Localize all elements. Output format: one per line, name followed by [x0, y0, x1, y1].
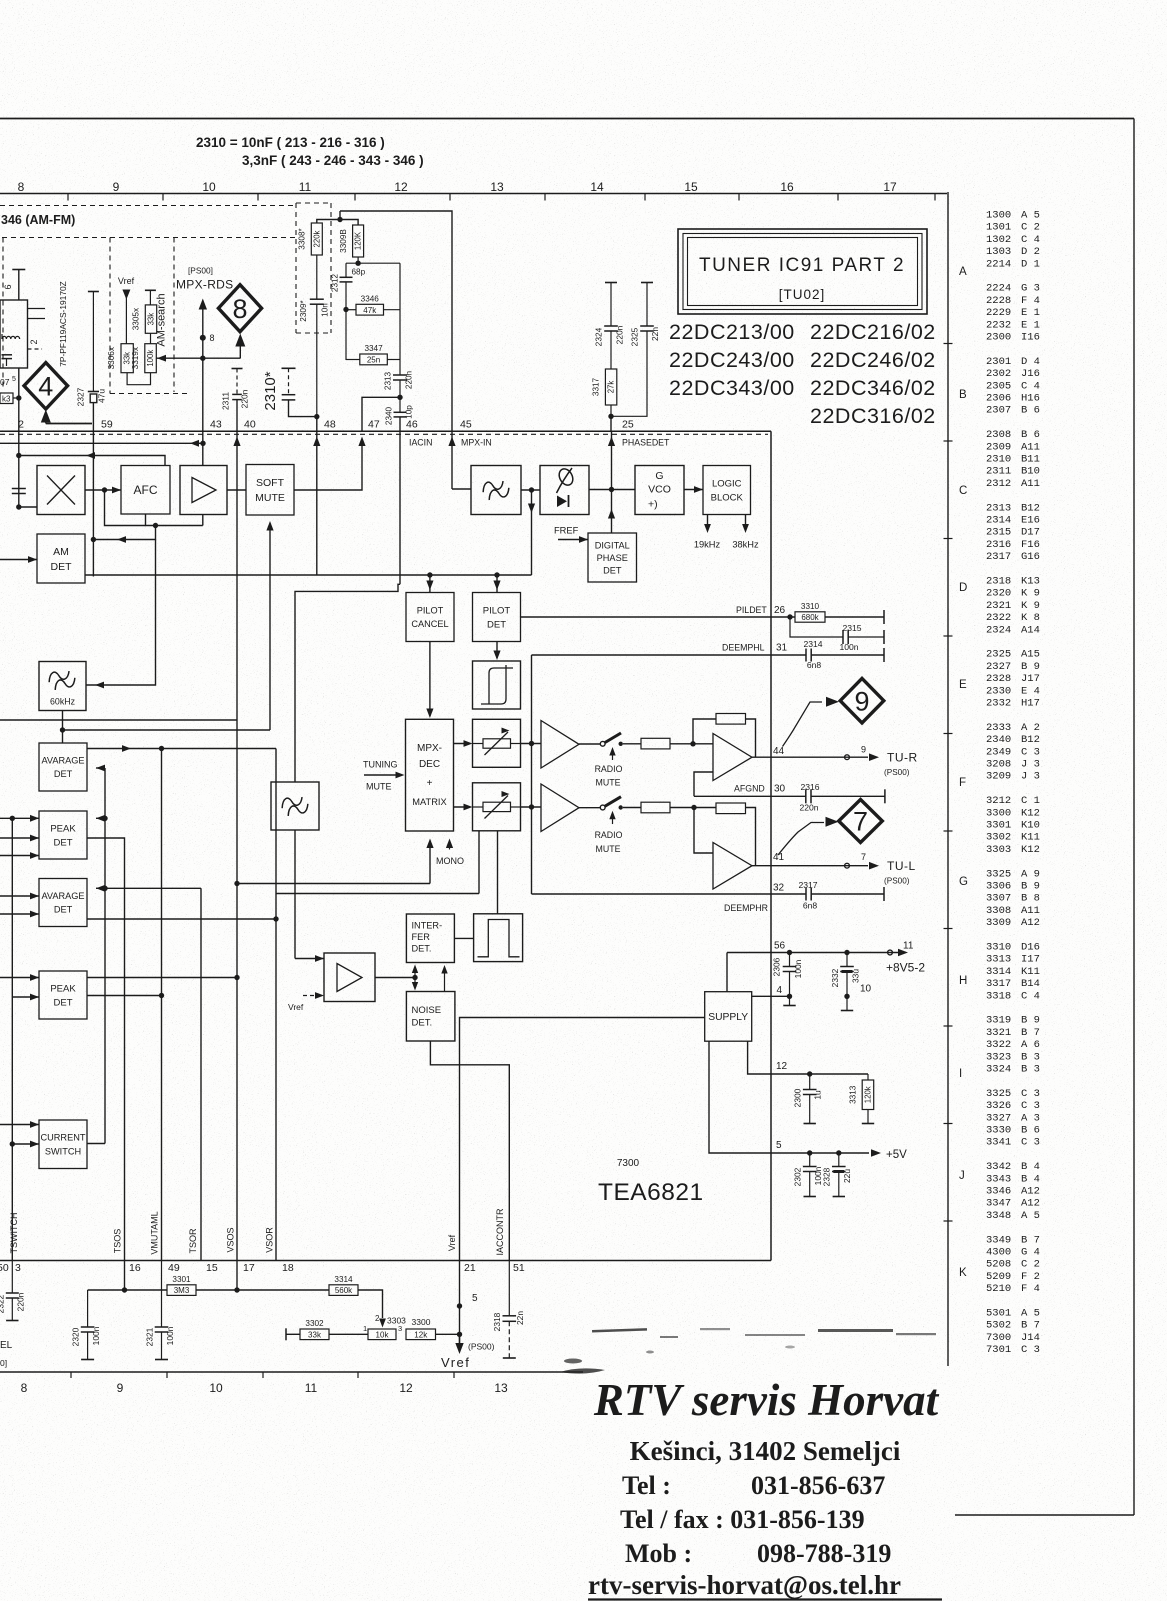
wire interference amp output: [375, 977, 415, 979]
wire AVARAGE2 to TSOR: [105, 887, 201, 889]
terminal bar above 3305x: [145, 289, 156, 291]
radio mute switch 1: [579, 743, 600, 745]
VSOR rail: [275, 749, 277, 1262]
MONO arrow: [446, 839, 453, 849]
wire junction down to pin59 node: [93, 526, 155, 540]
transformer right stubs: [28, 308, 46, 310]
wire PEAK2 output to VSOS rail: [87, 977, 237, 979]
channel amplifier 1 triangle: [541, 721, 579, 769]
wire CURRENT SWITCH output up rail: [87, 1143, 105, 1145]
page bottom-right border: [944, 1514, 1134, 1516]
wire PEAK2 lower output to VMUTAML: [87, 995, 162, 997]
arrow into PILOT CANCEL: [429, 575, 431, 593]
resistor 3306x 33k: [121, 344, 133, 373]
wire PEAK1 output to TSOS: [87, 838, 125, 1261]
hysteresis block: [473, 661, 521, 709]
resistor after switch 1: [641, 738, 670, 749]
capacitor 2317 6n8: [805, 888, 807, 901]
wire 3309B top to node: [340, 220, 358, 226]
wire attenuator2 to channel amp2: [521, 806, 542, 808]
TU-L output pin 41: [752, 865, 868, 867]
variable attenuator block 2: [473, 783, 521, 831]
capacitor 2316 220n: [805, 789, 807, 803]
op-amp2 feedback resistor: [716, 803, 746, 814]
wire node to pin 47 column: [362, 397, 400, 431]
wire MPX dec mono line: [237, 883, 430, 885]
wire PEAK1 right input from rail: [96, 817, 105, 819]
wire transformer to lower junctions: [18, 368, 20, 456]
wire PEAK1 left inputs: [0, 817, 39, 819]
pin 25 wire: [611, 431, 613, 490]
output op-amp 2 triangle: [713, 843, 752, 890]
capacitor 2310* (starred): [282, 367, 296, 369]
resistor 3347 25n: [360, 354, 388, 365]
Vref rail below IC edge: [459, 1261, 461, 1345]
index column tick marks: [944, 343, 953, 345]
pulse shaper block: [474, 914, 523, 962]
resistor 3313 120k: [867, 1074, 869, 1080]
wire AFC bottom jog: [146, 515, 203, 526]
page top border: [0, 118, 1134, 120]
arrow PILOT DET to hysteresis: [496, 642, 498, 659]
diamond connector 8: [218, 285, 261, 332]
capacitor inside transformer box: [2, 354, 13, 356]
TSOS VSOS rails to 3301 line: [124, 1261, 126, 1290]
wire U-link below 3306x and 3319x: [127, 373, 150, 385]
wire amplifier to SOFT MUTE: [227, 489, 246, 491]
diamond connector 9: [840, 678, 884, 723]
PILDET line pin 26: [521, 616, 796, 618]
wire attenuator1 to channel amp1: [521, 743, 542, 745]
pin 5 line +5V: [709, 1041, 869, 1153]
resistor 3302 33k: [285, 1328, 287, 1340]
wire feedback into node43: [0, 442, 203, 444]
left dashed box around IF transformer: [2, 238, 4, 391]
capacitor 2306 100n: [789, 953, 791, 967]
dashed box around 3308 and 2309: [296, 202, 331, 204]
arrow down from Vref: [122, 290, 130, 300]
wire pin 48 column: [316, 431, 318, 575]
junction k3 to vertical: [16, 395, 21, 400]
AVARAGE DET block 2: [39, 879, 87, 927]
wire AM DET input: [0, 559, 37, 561]
link to diamond 7: [778, 823, 824, 856]
wire MPX-IN feed top run: [340, 211, 452, 489]
top ruler line: [0, 193, 947, 195]
AFC block: [121, 466, 170, 515]
resistor 3303 10k: [368, 1329, 396, 1340]
capacitor 2300 1u: [809, 1074, 811, 1090]
mixer block: [37, 466, 85, 515]
top ruler half ticks: [67, 194, 69, 201]
capacitor on pin2 rail: [12, 488, 26, 490]
output op-amp 1 triangle: [713, 734, 752, 781]
wire pin 2 rail: [18, 456, 20, 508]
arrow into diamond 8: [235, 334, 245, 347]
arrow into diamond 4: [41, 410, 51, 423]
channel amplifier 2 triangle: [541, 784, 579, 832]
diamond connector 4: [24, 363, 68, 409]
title block frame: [678, 229, 927, 314]
DEEMPHL line pin 31: [532, 654, 807, 656]
resistor 3346 47k: [356, 304, 384, 315]
scan noise texture: [0, 0, 1, 1]
IC 7300 boundary top edge: [0, 430, 771, 432]
wire node to DIGITAL PHASE DET: [611, 490, 613, 534]
capacitor 2302 100n: [809, 1153, 811, 1167]
node 8 ring on MPX-RDS wire: [200, 335, 206, 341]
wire attenuator2 to pulse shaper: [497, 831, 499, 914]
capacitor 2321 100n: [161, 1261, 163, 1327]
arrow up MPX-RDS output: [199, 299, 207, 310]
capacitor 2311 220n: [232, 368, 243, 370]
junction column deemphl to deemphr: [531, 655, 533, 894]
wire node up to MPX-IN feed line: [339, 211, 341, 220]
resistor after switch 2: [641, 802, 670, 813]
resistor 3319x 100k: [145, 344, 157, 373]
capacitor 2324 220n: [605, 282, 617, 284]
wire down to 60kHz filter: [86, 540, 156, 686]
resistor 3310 680k: [795, 612, 825, 622]
wire diamond 4 to pin 59 column: [46, 423, 92, 425]
LOGIC BLOCK block: [703, 466, 751, 515]
resistor 3309B 120K: [353, 225, 364, 257]
DIGITAL PHASE DET block: [588, 533, 637, 582]
capacitor 2322 220n: [11, 1261, 13, 1293]
AFGND line pin 30: [694, 795, 806, 797]
capacitor 2328 22u: [838, 1153, 840, 1167]
TSWITCH rail: [11, 818, 13, 1261]
capacitor 2332 33u: [846, 953, 848, 967]
wire AVARAGE2 right input from rail: [96, 887, 105, 889]
pin 2 stub of transformer: [28, 348, 43, 350]
wire mixer to AFC: [85, 489, 121, 491]
capacitor 2320 100n: [87, 1290, 89, 1327]
MPX-DEC output arrows: [454, 743, 471, 745]
stamp white background: [583, 1366, 955, 1601]
capacitor 2318 22n: [508, 1261, 510, 1316]
wire long rail into pin40: [0, 719, 237, 721]
PEAK DET block 2: [39, 971, 87, 1019]
G VCO block: [635, 466, 684, 515]
wire AM DET output line: [85, 574, 532, 576]
capacitor 2309* 10n: [316, 255, 318, 299]
IF amplifier block: [180, 466, 227, 515]
wire AVARAGE1 right input: [96, 767, 105, 769]
schematic bottom border: [0, 1371, 948, 1373]
resistor 3308* 220k: [311, 223, 322, 255]
AM-FM module dashed boundary: [0, 205, 296, 207]
capacitor 2312 68p: [345, 263, 347, 277]
interference amplifier block: [324, 953, 375, 1002]
wire AVARAGE2 inputs: [0, 895, 39, 897]
INTER-FER DET block: [406, 914, 454, 963]
wire right column x400: [399, 263, 401, 375]
resistor 3305x 33k: [145, 305, 156, 333]
wire VCO to LOGIC BLOCK: [684, 489, 703, 491]
op-amp1 feedback resistor: [693, 719, 716, 744]
wire NOISE DET to SUPPLY and Vref rail: [460, 1018, 705, 1262]
pilot cancel filter block: [271, 782, 319, 830]
wire PEAK2 inputs: [0, 977, 39, 979]
wire CURRENT SWITCH inputs: [0, 1124, 39, 1126]
pin 56 supply line: [726, 953, 728, 992]
arrows between INTERFER and NOISE: [414, 967, 416, 988]
link to diamond 9: [783, 702, 823, 747]
resistor 3300 12k: [406, 1329, 436, 1340]
wire pin 43 through amplifier: [202, 423, 204, 466]
TU-R output pin 44: [752, 756, 868, 758]
NOISE DET block: [406, 992, 455, 1042]
wire AVARAGE1 output line: [87, 748, 276, 750]
wire AVARAGE2 output to VSOR: [87, 918, 276, 920]
rail x105 current switch to averagedet: [104, 768, 106, 1144]
wire AM-search node to MPX-RDS column: [157, 357, 241, 359]
wire pin 40 VSOS rail: [236, 431, 238, 1261]
arrow into PILOT DET: [496, 575, 498, 593]
bottom ruler half ticks: [70, 1372, 72, 1378]
IF transformer 5301 box: [0, 300, 28, 368]
pin 4 line: [752, 995, 790, 997]
VSOS rail junction: [234, 881, 239, 886]
capacitor 2313 220n: [393, 374, 407, 376]
PILOT CANCEL to MPX-DEC arrow: [429, 642, 431, 717]
PEAK DET block 1: [39, 811, 87, 859]
pin 12 line: [748, 1041, 868, 1074]
variable attenuator block 1: [473, 719, 521, 767]
resistor 3301 3M3 line: [88, 1289, 167, 1291]
capacitor 2327 47u: [88, 291, 99, 293]
wire attenuator2 lower line: [276, 893, 479, 895]
page right border: [1133, 119, 1135, 1516]
VMUTAML rail: [161, 749, 163, 1262]
PILOT CANCEL block: [406, 593, 454, 642]
IC 7300 boundary bottom edge: [0, 1260, 771, 1262]
MPX-DEC MATRIX block: [406, 719, 454, 831]
wire pin46 jog to pilot cancel filter: [295, 584, 400, 782]
LOGIC BLOCK outputs 19kHz 38kHz: [707, 515, 709, 531]
wire 3308 top to node: [317, 220, 340, 224]
wire mixer branch down: [105, 490, 146, 526]
pin 6 stub of transformer: [12, 269, 25, 271]
capacitor 2315 100n: [790, 617, 843, 637]
CURRENT SWITCH block: [39, 1120, 87, 1169]
capacitor 2325 22n: [641, 282, 653, 284]
AVARAGE DET block 1: [39, 743, 87, 791]
wire 3305x to 3319x: [150, 333, 152, 343]
wire NOISE DET to IACCONTR: [430, 1041, 509, 1261]
AM DET block: [37, 534, 85, 583]
wire 60kHz to AVARAGE DET 1: [62, 711, 64, 744]
SOFT MUTE block: [246, 465, 294, 516]
MPX input filter block: [471, 466, 521, 515]
wire INTERFER to pulse shaper: [454, 937, 473, 939]
wire SOFT MUTE to pin 47: [294, 440, 362, 490]
module dashed boundary below IC top edge: [0, 433, 768, 435]
diamond connector 7: [839, 800, 883, 843]
phase shifter block: [540, 466, 589, 515]
wire soft mute bottom feed: [269, 525, 271, 730]
MPX-RDS dashed box left edge: [173, 238, 175, 393]
wire junction down to pilot line: [531, 490, 533, 575]
index column separator line: [947, 192, 949, 1372]
wire filter to phase shifter: [521, 489, 540, 491]
DEEMPHR line pin 32: [532, 893, 807, 895]
wire filter to interference amp: [294, 830, 296, 959]
capacitor 2314 6n8: [805, 649, 807, 662]
PILOT DET block: [473, 593, 521, 642]
wire pin48 column: [316, 417, 318, 431]
wire pin 59 column lower: [92, 431, 94, 577]
wire 3309B bottom junction: [357, 257, 359, 263]
op-amp2 input hook: [694, 808, 713, 854]
IC 7300 boundary right edge: [770, 431, 772, 1260]
resistor 3314 560k: [329, 1285, 358, 1296]
stamp smudge artifacts: [560, 1328, 936, 1374]
radio mute switch 2: [579, 807, 600, 809]
resistor 3317 27k: [605, 369, 616, 405]
wire MPX-IN into filter: [452, 488, 471, 490]
wire phase shifter to VCO: [589, 489, 635, 491]
60kHz filter block: [39, 662, 86, 711]
AFGND hook to op-amp1: [694, 772, 713, 796]
capacitor 2340 10p: [399, 397, 401, 412]
wire AFC top feedback: [19, 456, 165, 466]
transformer coil winding: [2, 336, 20, 339]
wire pin2 rail to mixer: [19, 506, 37, 508]
SUPPLY block: [705, 992, 752, 1041]
